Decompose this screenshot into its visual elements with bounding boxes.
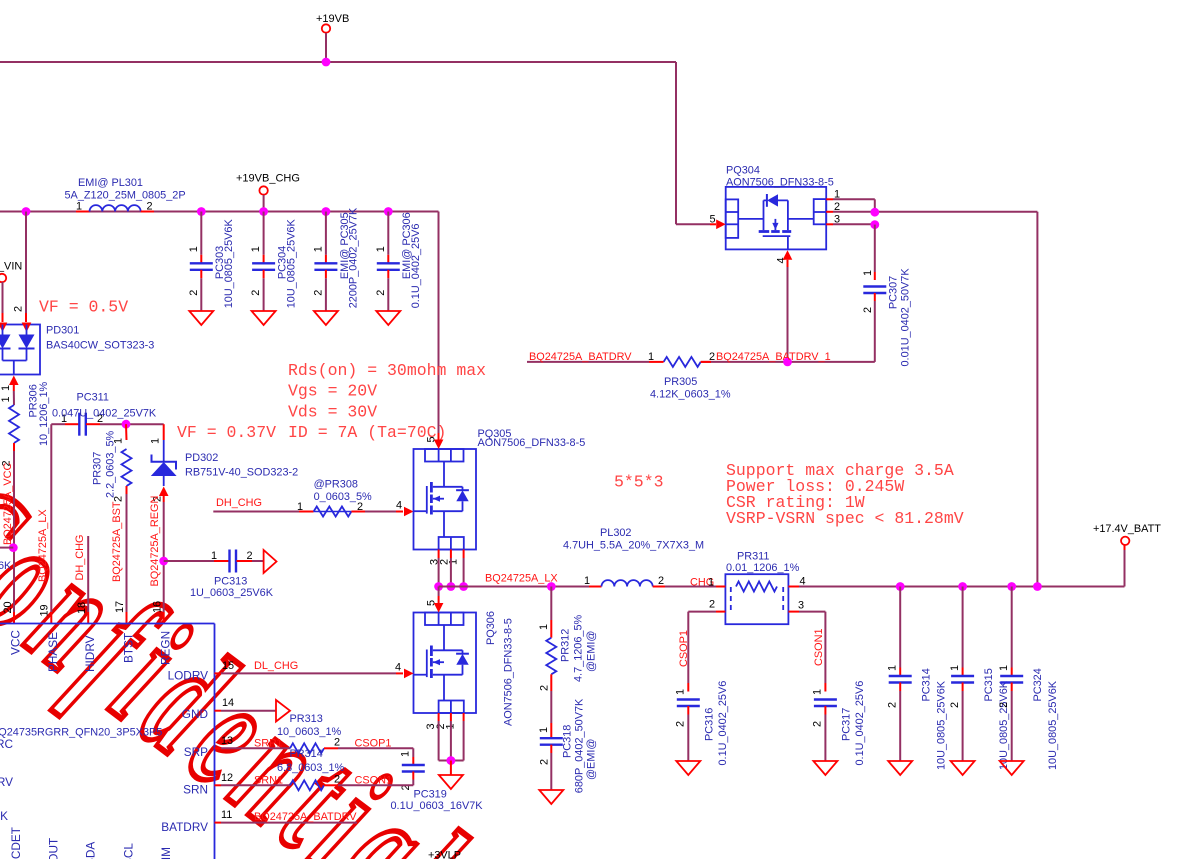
terminal +19VB: [322, 24, 330, 32]
svg-text:2: 2: [675, 721, 687, 727]
annotation Rds block: [288, 361, 486, 442]
svg-text:CSOP1: CSOP1: [355, 738, 392, 750]
ground PQ306: [439, 775, 463, 789]
svg-text:Rds(on) = 30mohm max: Rds(on) = 30mohm max: [288, 361, 486, 380]
capacitor PC319 0.1U_0603_16V7K: [391, 751, 484, 812]
diode PD301 BAS40CW_SOT323-3: [0, 323, 154, 375]
wire BST net: [126, 486, 128, 494]
svg-text:BQ24725A_LX: BQ24725A_LX: [485, 573, 558, 585]
svg-text:CSOP1: CSOP1: [678, 630, 690, 667]
svg-text:LODRV: LODRV: [168, 669, 209, 683]
svg-text:2: 2: [949, 702, 961, 708]
wire PQ304 pin1: [826, 198, 833, 200]
svg-text:10U_0805_25V6K: 10U_0805_25V6K: [998, 680, 1010, 770]
svg-text:6.8_0603_1%: 6.8_0603_1%: [277, 762, 345, 774]
svg-text:PC317: PC317: [841, 708, 853, 741]
wire BATT terminal stub: [1124, 545, 1126, 550]
ground PC315: [951, 761, 975, 775]
svg-text:REGN: REGN: [159, 631, 173, 665]
wire VCC2 net: [13, 443, 15, 451]
resistor PR306 10_1206_1%: [1, 381, 51, 466]
node LX junctions: [434, 582, 443, 591]
svg-text:DL_CHG: DL_CHG: [254, 660, 298, 672]
svg-text:10U_0805_25V6K: 10U_0805_25V6K: [1047, 680, 1059, 770]
svg-text:2: 2: [862, 307, 874, 313]
wire +19VB_CHG stub: [263, 195, 265, 212]
node VCC junction: [9, 543, 18, 552]
svg-text:5A_Z120_25M_0805_2P: 5A_Z120_25M_0805_2P: [65, 190, 186, 202]
svg-text:PC316: PC316: [704, 708, 716, 741]
svg-text:PL302: PL302: [600, 527, 632, 539]
svg-text:4.7_1206_5%: 4.7_1206_5%: [573, 614, 585, 682]
svg-text:GND: GND: [182, 707, 208, 721]
svg-text:PC315: PC315: [983, 668, 995, 701]
svg-text:14: 14: [222, 697, 234, 709]
node gate junction: [783, 358, 792, 367]
svg-text:+3VLP: +3VLP: [428, 850, 461, 859]
svg-text:2: 2: [375, 290, 387, 296]
svg-text:0.1U_0402_25V6: 0.1U_0402_25V6: [854, 681, 866, 766]
svg-text:ID = 7A (Ta=70C): ID = 7A (Ta=70C): [288, 423, 446, 442]
svg-text:DH_CHG: DH_CHG: [74, 535, 86, 581]
svg-text:6K: 6K: [0, 560, 12, 572]
svg-text:PC314: PC314: [921, 668, 933, 701]
svg-text:2.2_0603_5%: 2.2_0603_5%: [105, 430, 117, 498]
ground PC314: [888, 761, 912, 775]
svg-text:2: 2: [334, 737, 340, 749]
svg-text:Vgs = 20V: Vgs = 20V: [288, 382, 377, 401]
wire stub from left: [0, 547, 13, 549]
svg-text:1: 1: [0, 396, 12, 402]
capacitor PC305 2200P_0402_25V7K: [312, 207, 359, 325]
capacitor PC318 680P_0402_50V7K: [538, 691, 598, 793]
svg-text:1: 1: [538, 624, 550, 630]
svg-text:2: 2: [812, 721, 824, 727]
capacitor PC317 0.1U_0402_25V6: [812, 681, 867, 766]
wire LX to PR312: [550, 587, 552, 621]
svg-text:+19VB: +19VB: [316, 13, 349, 25]
svg-text:PR307: PR307: [92, 452, 104, 485]
svg-text:SDA: SDA: [84, 842, 98, 859]
wire BQ24725A_LX to pin19: [50, 424, 52, 612]
svg-text:SRP1: SRP1: [254, 738, 282, 750]
wire CSOP1 from PR311 pin2: [688, 611, 716, 613]
capacitor PC307 0.01U_0402_50V7K: [862, 268, 911, 367]
svg-text:1: 1: [188, 246, 200, 252]
svg-text:BQ24725A_LX: BQ24725A_LX: [37, 509, 49, 582]
wire PD301 output: [9, 376, 19, 386]
svg-text:2: 2: [334, 774, 340, 786]
svg-text:PR312: PR312: [560, 629, 572, 662]
svg-text:1: 1: [998, 665, 1010, 671]
svg-text:ACDET: ACDET: [9, 827, 23, 859]
resistor PR308 0_0603_5%: [297, 479, 372, 517]
svg-text:0.1U_0402_25V6: 0.1U_0402_25V6: [410, 224, 422, 309]
svg-text:17: 17: [114, 601, 126, 613]
svg-text:IOUT: IOUT: [47, 838, 61, 859]
svg-text:@PR308: @PR308: [314, 479, 358, 491]
svg-text:1: 1: [375, 246, 387, 252]
svg-text:RB751V-40_SOD323-2: RB751V-40_SOD323-2: [185, 467, 298, 479]
wire SRP pin13: [215, 747, 222, 749]
node PR312 junction: [547, 582, 556, 591]
wire PQ305 pin5 arrow: [434, 440, 444, 450]
svg-text:_VIN: _VIN: [0, 261, 22, 273]
svg-text:0.1U_0402_25V6: 0.1U_0402_25V6: [717, 681, 729, 766]
wire PQ304 gate: [783, 250, 793, 260]
svg-text:13: 13: [221, 735, 233, 747]
wire PQ306 source pins: [439, 713, 464, 761]
svg-text:1: 1: [708, 577, 714, 589]
svg-text:VSRP-VSRN spec < 81.28mV: VSRP-VSRN spec < 81.28mV: [726, 509, 964, 528]
svg-text:680P_0402_50V7K: 680P_0402_50V7K: [574, 698, 586, 793]
svg-text:1: 1: [150, 438, 162, 444]
svg-text:1: 1: [949, 665, 961, 671]
svg-text:19: 19: [39, 604, 51, 616]
svg-text:PR311: PR311: [737, 551, 770, 563]
svg-text:PR305: PR305: [664, 376, 697, 388]
wire +19VB stub: [325, 33, 327, 62]
svg-text:1: 1: [538, 727, 550, 733]
svg-text:2: 2: [539, 759, 551, 765]
svg-text:2: 2: [709, 351, 715, 363]
svg-text:@EMI@: @EMI@: [586, 739, 598, 780]
svg-text:+17.4V_BATT: +17.4V_BATT: [1093, 523, 1161, 535]
wire source to PC307: [874, 225, 876, 272]
svg-text:2: 2: [188, 290, 200, 296]
resistor PR305 4.12K_0603_1%: [648, 351, 731, 401]
svg-text:2: 2: [658, 575, 664, 587]
wire REGN net: [159, 487, 169, 497]
wire _VIN to PD301: [2, 282, 4, 313]
capacitor PC316 0.1U_0402_25V6: [675, 681, 730, 766]
wire DH_CHG stub to pin18: [87, 536, 89, 612]
svg-text:PC313: PC313: [214, 576, 247, 588]
svg-text:1: 1: [675, 689, 687, 695]
svg-text:SRN1: SRN1: [254, 775, 283, 787]
capacitor PC313 1U_0603_25V6K: [164, 550, 274, 600]
wire CSOP1 to PC319: [324, 747, 338, 749]
wire CHG net: [665, 586, 716, 588]
svg-text:2: 2: [998, 702, 1010, 708]
wire to ground: [450, 761, 452, 776]
svg-text:1: 1: [400, 751, 412, 757]
svg-text:10_1206_1%: 10_1206_1%: [38, 381, 50, 446]
svg-text:10_0603_1%: 10_0603_1%: [277, 726, 342, 738]
wire PC311 to PD302: [126, 423, 164, 425]
svg-text:VF = 0.5V: VF = 0.5V: [39, 298, 128, 317]
wire DH_CHG: [213, 511, 299, 513]
wire +19VB top bus: [0, 61, 676, 63]
terminal +17.4V_BATT: [1121, 537, 1129, 545]
resistor PR311 0.01_1206_1%: [708, 551, 806, 625]
svg-text:AON7506_DFN33-8-5: AON7506_DFN33-8-5: [726, 177, 834, 189]
wire +17.4V_BATT rail: [799, 586, 1125, 588]
svg-text:BQ24725A_BATDRV_1: BQ24725A_BATDRV_1: [716, 351, 831, 363]
svg-text:4: 4: [396, 500, 402, 512]
svg-text:2: 2: [887, 702, 899, 708]
svg-text:PD302: PD302: [185, 452, 218, 464]
resistor PR314 6.8_0603_1%: [277, 748, 345, 790]
svg-text:2200P_0402_25V7K: 2200P_0402_25V7K: [348, 207, 360, 308]
svg-text:PR314: PR314: [290, 748, 323, 760]
svg-text:1: 1: [862, 270, 874, 276]
svg-text:1: 1: [584, 575, 590, 587]
node rail junctions: [896, 582, 905, 591]
svg-text:PC311: PC311: [77, 392, 110, 404]
svg-text:SCL: SCL: [122, 843, 136, 859]
svg-text:EMI@ PL301: EMI@ PL301: [78, 177, 143, 189]
offpage connector GND: [276, 700, 290, 722]
node BST junction: [122, 420, 131, 429]
capacitor PC315 10U_0805_25V6K: [949, 587, 1010, 771]
svg-text:DH_CHG: DH_CHG: [216, 497, 262, 509]
wire PQ306 gate DL_CHG: [404, 669, 414, 679]
ground PC317: [813, 761, 837, 775]
wire CSON1 from PR311 pin3: [799, 611, 825, 613]
capacitor PC304 10U_0805_25V6K: [250, 212, 297, 326]
capacitor PC306 0.1U_0402_25V6: [375, 212, 422, 326]
transistor PQ306 AON7506_DFN33-8-5: [414, 600, 515, 730]
svg-text:PC319: PC319: [414, 789, 447, 801]
capacitor PC314 10U_0805_25V6K: [887, 587, 948, 771]
svg-text:2: 2: [247, 550, 253, 562]
svg-text:5*5*3: 5*5*3: [614, 473, 664, 492]
svg-text:BQ24725A_REGN: BQ24725A_REGN: [149, 496, 161, 587]
offpage connector PC313: [264, 550, 277, 573]
svg-text:+19VB_CHG: +19VB_CHG: [236, 173, 300, 185]
wire BATDRV pin11: [215, 822, 222, 824]
svg-text:BQ24725A_VCC: BQ24725A_VCC: [2, 463, 14, 545]
transistor PQ305 AON7506_DFN33-8-5: [414, 428, 586, 565]
svg-text:PHASE: PHASE: [46, 632, 60, 672]
wire BATDRV_1 net: [701, 361, 875, 363]
svg-text:10U_0805_25V6K: 10U_0805_25V6K: [223, 219, 235, 309]
svg-text:0.1U_0603_16V7K: 0.1U_0603_16V7K: [391, 800, 484, 812]
annotation support block: [726, 461, 964, 528]
svg-text:20: 20: [2, 601, 14, 613]
svg-text:1: 1: [0, 385, 12, 391]
ground PC316: [676, 761, 700, 775]
svg-text:1: 1: [448, 559, 460, 565]
svg-text:2: 2: [147, 201, 153, 213]
wire +19VB_CHG bus: [0, 211, 439, 213]
node REGN junction: [159, 557, 168, 566]
wire SRN pin12: [215, 784, 222, 786]
svg-text:BAS40CW_SOT323-3: BAS40CW_SOT323-3: [46, 340, 154, 352]
svg-text:BATDRV: BATDRV: [161, 820, 208, 834]
svg-text:15: 15: [222, 660, 234, 672]
wire PQ304 pin2: [826, 211, 833, 213]
svg-text:PQ306: PQ306: [485, 611, 497, 645]
svg-text:4: 4: [395, 662, 401, 674]
svg-text:2: 2: [13, 306, 25, 312]
wire CSON1 to PC319: [324, 784, 338, 786]
svg-text:VCC: VCC: [9, 630, 23, 655]
svg-text:1U_0603_25V6K: 1U_0603_25V6K: [190, 587, 274, 599]
svg-text:BQ24725A_BATDRV: BQ24725A_BATDRV: [254, 811, 357, 823]
terminal _VIN: [0, 274, 6, 282]
svg-text:ACDRV: ACDRV: [0, 775, 13, 789]
svg-text:4.12K_0603_1%: 4.12K_0603_1%: [650, 389, 731, 401]
capacitor PC324 10U_0805_25V6K: [998, 587, 1059, 771]
svg-text:ACOK: ACOK: [0, 809, 8, 823]
wire PQ304 pin3: [826, 223, 833, 225]
svg-text:BTST: BTST: [121, 633, 135, 663]
svg-text:1: 1: [250, 246, 262, 252]
terminal +19VB_CHG: [259, 186, 267, 194]
svg-text:@EMI@: @EMI@: [586, 631, 598, 672]
svg-text:SRN: SRN: [183, 783, 208, 797]
svg-text:1: 1: [312, 246, 324, 252]
svg-text:1: 1: [297, 501, 303, 513]
ground PC318: [539, 790, 563, 804]
svg-text:BQ24725A_BST: BQ24725A_BST: [111, 501, 123, 582]
resistor PR312 4.7_1206_5%: [538, 614, 598, 691]
svg-text:3: 3: [798, 600, 804, 612]
svg-text:CSON1: CSON1: [813, 628, 825, 666]
inductor PL302 4.7UH_5.5A_20%_7X7X3_M: [563, 527, 704, 587]
resistor PR313 10_0603_1%: [290, 737, 340, 754]
svg-text:PC307: PC307: [888, 276, 900, 309]
ic BQ24735RGRR_QFN20_3P5X3P5: [0, 624, 215, 859]
svg-text:18: 18: [76, 602, 88, 614]
wire GND pin14: [215, 710, 222, 712]
wire bus to PD301 pin2: [25, 212, 27, 314]
svg-text:CMSRC: CMSRC: [0, 737, 13, 751]
svg-text:2: 2: [250, 290, 262, 296]
svg-text:2: 2: [312, 290, 324, 296]
inductor PL301 5A_Z120_25M_0805_2P: [65, 177, 186, 213]
svg-text:4.7UH_5.5A_20%_7X7X3_M: 4.7UH_5.5A_20%_7X7X3_M: [563, 540, 704, 552]
wire LX to PQ306 pin5: [438, 587, 440, 597]
capacitor PC311 0.047U_0402_25V7K: [51, 392, 157, 436]
svg-text:CSON1: CSON1: [355, 775, 393, 787]
wire BATT net vertical: [1036, 212, 1038, 586]
svg-text:11: 11: [221, 809, 232, 821]
svg-text:10U_0805_25V6K: 10U_0805_25V6K: [285, 219, 297, 309]
diode PD302 RB751V-40_SOD323-2: [150, 424, 299, 486]
wire PQ304 pin5 arrow: [716, 220, 726, 230]
ground PC324: [1000, 761, 1024, 775]
resistor PR307 2.2_0603_5%: [92, 424, 132, 502]
svg-text:1: 1: [76, 201, 82, 213]
node PQ306 source junction: [447, 756, 456, 765]
svg-text:ILIM: ILIM: [159, 847, 173, 859]
svg-text:1: 1: [887, 665, 899, 671]
node PQ304 source junctions: [870, 208, 879, 217]
svg-text:16: 16: [152, 601, 164, 613]
svg-text:1: 1: [812, 689, 824, 695]
svg-text:0.01_1206_1%: 0.01_1206_1%: [726, 562, 800, 574]
svg-text:0_0603_5%: 0_0603_5%: [314, 491, 372, 503]
svg-text:1: 1: [211, 550, 217, 562]
capacitor PC303 10U_0805_25V6K: [188, 212, 235, 326]
svg-text:AON7506_DFN33-8-5: AON7506_DFN33-8-5: [502, 618, 514, 726]
svg-text:HIDRV: HIDRV: [83, 635, 97, 672]
svg-text:SRP: SRP: [184, 745, 208, 759]
svg-text:PC324: PC324: [1032, 668, 1044, 701]
svg-text:VF = 0.37V: VF = 0.37V: [177, 423, 276, 442]
svg-text:0.047U_0402_25V7K: 0.047U_0402_25V7K: [52, 408, 157, 420]
svg-text:AON7506_DFN33-8-5: AON7506_DFN33-8-5: [478, 437, 586, 449]
svg-text:PQ304: PQ304: [726, 165, 760, 177]
svg-text:BQ24725A_BATDRV: BQ24725A_BATDRV: [529, 351, 632, 363]
svg-text:PC318: PC318: [562, 725, 574, 758]
wire PR308 to PQ305 gate: [351, 511, 365, 513]
svg-text:2: 2: [539, 685, 551, 691]
transistor PQ304 AON7506_DFN33-8-5: [710, 165, 841, 264]
wire BQ24725A_BATDRV: [527, 361, 649, 363]
svg-text:5: 5: [710, 214, 716, 226]
svg-text:0.01U_0402_50V7K: 0.01U_0402_50V7K: [899, 268, 911, 367]
svg-text:10U_0805_25V6K: 10U_0805_25V6K: [935, 680, 947, 770]
wire BQ24725A_LX: [439, 586, 552, 588]
node bus junctions: [22, 207, 31, 216]
svg-text:Vds = 30V: Vds = 30V: [288, 402, 377, 421]
svg-text:PD301: PD301: [46, 325, 79, 337]
svg-text:12: 12: [221, 772, 233, 784]
svg-text:BQ24735RGRR_QFN20_3P5X3P5: BQ24735RGRR_QFN20_3P5X3P5: [0, 727, 162, 739]
wire DL_CHG pin15: [215, 672, 222, 674]
node +19VB junction: [322, 58, 331, 67]
svg-text:PR313: PR313: [290, 713, 323, 725]
wire PQ305 pins to LX: [438, 550, 440, 559]
svg-text:2: 2: [709, 599, 715, 611]
